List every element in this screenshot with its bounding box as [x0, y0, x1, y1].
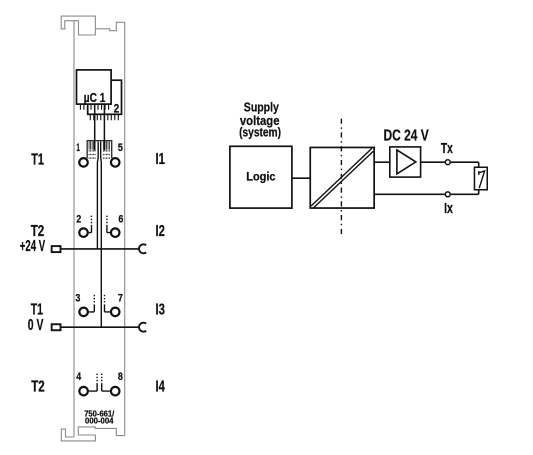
svg-text:T2: T2: [31, 379, 45, 396]
dashed internal link terminal 4: [96, 374, 98, 384]
+24V feed square connector: [52, 246, 61, 252]
wire sensor right leg: [478, 162, 480, 194]
dashed internal link terminal 3: [93, 295, 95, 305]
wire driver to Tx terminal: [421, 161, 444, 163]
dashed internal link terminal 8: [101, 374, 103, 384]
hook contact terminal 7: [105, 305, 110, 312]
converter diagonal (lower): [313, 151, 373, 208]
terminal 4: [79, 387, 88, 396]
wire from chip to data contact block (left): [94, 105, 96, 151]
+24V rail wire: [61, 248, 139, 250]
svg-text:I3: I3: [156, 302, 166, 319]
data contact hatch: [89, 141, 109, 149]
wire pair down from block: right wire to 0V rail: [100, 142, 103, 328]
svg-text:3: 3: [75, 293, 80, 305]
terminal 2: [79, 228, 88, 237]
terminal 3: [79, 308, 88, 317]
microcontroller chip U1 (front, µC 1): [77, 70, 112, 104]
wire Ix to sensor: [451, 193, 479, 195]
0V feed square connector: [52, 324, 61, 330]
data contact dotted hatch: [89, 150, 109, 159]
svg-text:Ix: Ix: [444, 201, 453, 217]
svg-text:I2: I2: [156, 223, 166, 240]
svg-text:Logic: Logic: [246, 170, 275, 184]
dashed internal link terminal 7: [104, 295, 106, 305]
microcontroller chip U2 (back, labeled 2): [88, 80, 122, 114]
hook contact terminal 4: [89, 383, 97, 391]
module housing outline: [61, 16, 124, 441]
svg-text:0 V: 0 V: [28, 317, 44, 334]
svg-text:T1: T1: [31, 302, 43, 319]
svg-text:2: 2: [76, 213, 81, 225]
svg-text:5: 5: [118, 142, 123, 154]
dc/dc converter U4: [310, 147, 374, 208]
terminal 8: [111, 387, 120, 396]
svg-text:DC 24 V: DC 24 V: [384, 128, 430, 145]
data contact block row 1: [87, 141, 112, 159]
svg-text:Tx: Tx: [441, 141, 453, 157]
terminal 5: [111, 158, 120, 167]
logic block U3: [230, 146, 292, 208]
wire from chip to data contact block (right): [103, 105, 105, 151]
wire logic to dc/dc converter: [292, 177, 310, 179]
sensor symbol stroke: [479, 171, 485, 188]
hook contact terminal 3: [89, 305, 94, 312]
+24V spring clamp connector: [139, 244, 146, 253]
svg-text:2: 2: [114, 101, 120, 115]
svg-text:4: 4: [76, 371, 82, 383]
terminal 1: [79, 158, 88, 167]
hook contact terminal 8: [102, 383, 110, 391]
chip U1 pins: [80, 104, 108, 110]
0V spring clamp connector: [139, 323, 146, 332]
svg-text:8: 8: [118, 371, 123, 383]
svg-text:(system): (system): [239, 125, 281, 140]
hook contact terminal 2: [89, 226, 92, 232]
converter diagonal (upper): [311, 148, 372, 206]
svg-text:1: 1: [76, 142, 80, 154]
driver block U5: [390, 147, 421, 177]
svg-text:000-004: 000-004: [85, 416, 114, 425]
svg-text:I1: I1: [156, 151, 166, 168]
wire converter to driver: [375, 161, 389, 163]
node Tx: [445, 160, 450, 165]
node Ix: [445, 192, 450, 197]
wire converter to Ix terminal: [375, 193, 445, 195]
dashed internal link terminal 2: [91, 216, 93, 227]
driver triangle symbol: [397, 150, 416, 174]
terminal 6: [111, 228, 120, 237]
sensor R1 (external transducer): [474, 167, 487, 190]
hook contact terminal 6: [107, 226, 110, 232]
dashed internal link terminal 6: [106, 216, 108, 227]
0V rail wire: [61, 326, 139, 328]
svg-text:µC 1: µC 1: [84, 90, 106, 105]
svg-text:+24 V: +24 V: [20, 238, 46, 255]
wire pair down from block: left wire to +24V rail: [96, 142, 99, 249]
wire Tx to sensor: [451, 161, 479, 163]
svg-text:T1: T1: [31, 151, 44, 168]
svg-text:7: 7: [118, 293, 123, 305]
svg-text:6: 6: [118, 213, 123, 225]
chip U2 pins: [90, 114, 118, 120]
terminal 7: [111, 308, 120, 317]
galvanic isolation dash-dot line: [340, 119, 342, 234]
svg-text:I4: I4: [156, 379, 166, 396]
